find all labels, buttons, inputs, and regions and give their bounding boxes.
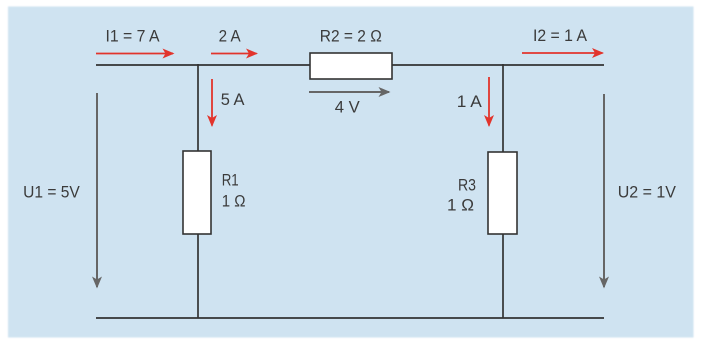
current arrow 1A: [488, 77, 490, 126]
wire left vertical lower: [197, 233, 199, 318]
svg-text:U2 = 1V: U2 = 1V: [618, 183, 677, 202]
resistor R1: [183, 151, 211, 234]
svg-text:R2 = 2 Ω: R2 = 2 Ω: [320, 26, 382, 45]
svg-text:R1: R1: [222, 171, 239, 190]
wire right vertical lower: [502, 233, 504, 318]
resistor R3: [488, 152, 517, 234]
wire top horizontal: [96, 64, 604, 66]
wire bottom horizontal: [96, 317, 604, 319]
current arrow 5A: [211, 79, 213, 126]
voltage arrow U1: [96, 93, 98, 287]
svg-text:1 Ω: 1 Ω: [447, 196, 474, 215]
svg-text:5 A: 5 A: [221, 90, 245, 109]
svg-text:4 V: 4 V: [335, 98, 361, 117]
current arrow 2A: [211, 53, 257, 55]
current arrow I2: [522, 52, 603, 54]
svg-text:I1 = 7 A: I1 = 7 A: [106, 26, 161, 45]
wire right vertical upper: [502, 64, 504, 153]
svg-text:U1 = 5V: U1 = 5V: [23, 183, 80, 202]
svg-text:1 Ω: 1 Ω: [222, 192, 246, 211]
resistor R2: [310, 53, 392, 79]
svg-text:I2 = 1 A: I2 = 1 A: [533, 26, 588, 45]
voltage arrow U2: [603, 94, 605, 287]
voltage arrow 4V: [309, 91, 389, 93]
wire left vertical upper: [197, 64, 199, 152]
current arrow I1: [96, 53, 173, 55]
svg-text:1 A: 1 A: [457, 92, 483, 111]
svg-text:R3: R3: [458, 176, 476, 195]
svg-text:2 A: 2 A: [219, 26, 242, 45]
